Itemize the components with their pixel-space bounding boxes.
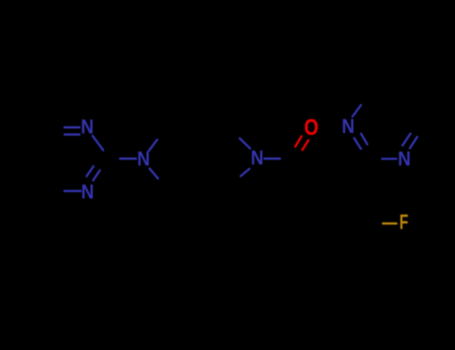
svg-text:O: O [304, 115, 318, 141]
svg-text:N: N [251, 148, 264, 170]
bond C17=O inner line (carbonyl) [302, 140, 308, 150]
bond C2=N3 main line (left pyrimidine) [93, 170, 100, 180]
svg-text:F: F [399, 211, 408, 234]
svg-text:N: N [81, 182, 94, 204]
bond N7-C8 up-right (spiro ring) [149, 140, 157, 151]
bond N1'-C2' main line (right pyrimidine) [354, 138, 361, 149]
bond N3'=C4' main line (right pyrimidine) [410, 137, 417, 148]
bond N1-C2 (left pyrimidine) [93, 136, 104, 150]
bond C2'-N3' (right pyrimidine) [382, 158, 396, 160]
bond N1'-C6' (right pyrimidine) [353, 105, 362, 117]
bond C14-N15 up-left (right amine N) [240, 138, 251, 148]
svg-text:N: N [81, 117, 94, 139]
bond C6=N1 inner line (left pyrimidine) [65, 133, 80, 135]
bond C2=N3 inner line (left pyrimidine) [87, 166, 94, 176]
svg-text:N: N [398, 149, 411, 171]
svg-text:N: N [137, 149, 150, 171]
bond N3'=C4' inner line (right pyrimidine) [402, 134, 410, 146]
bond N15-C17 carbonyl link [265, 158, 281, 160]
bond C17=O outer line (carbonyl) [295, 136, 301, 146]
bond C6=N1 outer line (left pyrimidine) [65, 126, 80, 128]
bond N7-C12 down-right (spiro ring) [150, 169, 159, 179]
bond C2-N7 (pyrimidine to spiro amine N) [120, 158, 136, 160]
bond C16-N15 down-left (right amine N) [241, 169, 250, 176]
bond N3-C4 (left pyrimidine) [64, 190, 80, 192]
svg-text:N: N [342, 116, 355, 138]
bond C-F (fluorine) [383, 222, 397, 224]
bond N1'-C2' inner line (right pyrimidine) [361, 134, 367, 145]
